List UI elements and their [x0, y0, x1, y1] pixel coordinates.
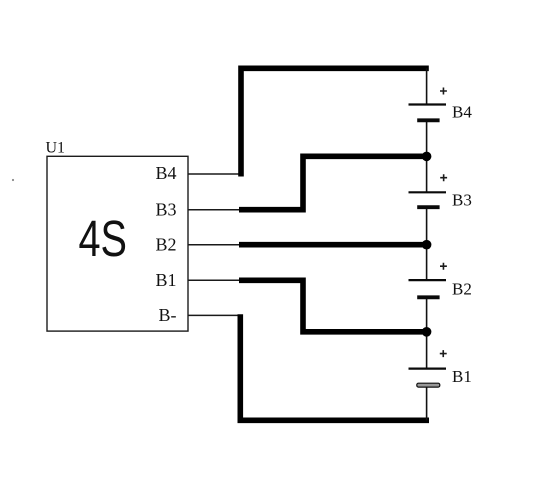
battery B1 plus sign [440, 350, 447, 357]
battery B4 [409, 105, 447, 121]
node junction dot B1 net [422, 327, 432, 337]
battery B4 plus sign [440, 88, 447, 95]
node junction dot B3 net [422, 152, 432, 162]
battery B3 [409, 192, 447, 207]
svg-text:B2: B2 [452, 279, 472, 298]
wire B2 net (straight run to node) [239, 242, 427, 248]
svg-text:B3: B3 [452, 190, 472, 209]
svg-text:B4: B4 [452, 102, 472, 121]
wire battery column segment top (B4+ feed) [426, 68, 428, 104]
wire B- net (riser and bottom run) [240, 314, 429, 420]
wire B3 net (run, riser, top run to node) [239, 156, 427, 209]
wire B1 pin stub [188, 279, 242, 281]
wire battery column segment B4- to B3+ [426, 120, 428, 192]
battery B2 [409, 280, 447, 297]
svg-text:B1: B1 [452, 367, 472, 386]
wire battery column segment B2- to B1+ [426, 297, 428, 368]
wire B4 pin stub [188, 173, 243, 175]
battery B2 plus sign [440, 263, 447, 270]
svg-text:B1: B1 [155, 270, 176, 290]
svg-text:B-: B- [159, 305, 177, 325]
wire B- pin stub [188, 314, 242, 316]
wire battery column segment B1- to bottom run [426, 384, 428, 420]
battery B1 [409, 369, 447, 388]
node junction dot B2 net [422, 240, 432, 250]
wire B1 net (run, riser, bottom run to node) [239, 280, 427, 332]
svg-text:B3: B3 [155, 200, 176, 220]
battery B3 plus sign [440, 174, 447, 181]
svg-text:4S: 4S [78, 210, 127, 267]
wire B2 pin stub [188, 244, 242, 246]
svg-text:B4: B4 [155, 163, 176, 183]
svg-text:B2: B2 [155, 234, 176, 254]
stray speck [12, 179, 14, 181]
wire battery column segment B3- to B2+ [426, 207, 428, 280]
IC U1 box [47, 156, 188, 331]
svg-text:U1: U1 [46, 140, 66, 157]
wire B4 net (riser and top run) [241, 68, 429, 176]
wire B3 pin stub [188, 209, 242, 211]
